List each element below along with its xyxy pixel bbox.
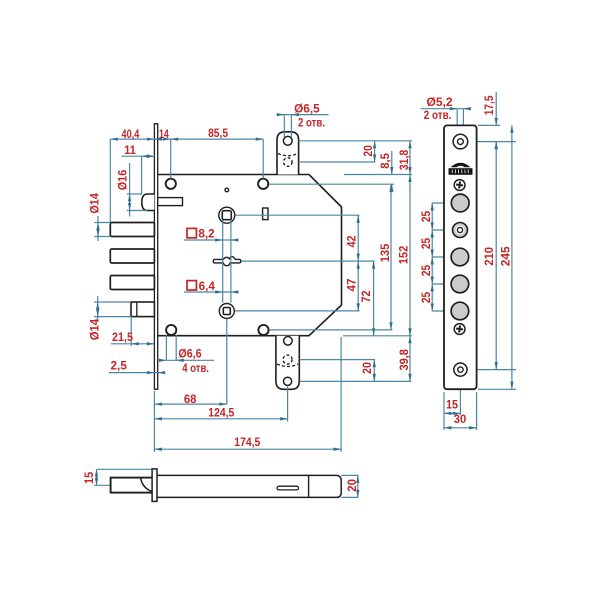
label 2 otv plate [424, 108, 452, 122]
svg-text:20: 20 [361, 145, 375, 157]
label 20 bottom view [345, 479, 359, 492]
label 17,5 [482, 95, 496, 115]
strike plate body [444, 125, 477, 389]
dim O14 bottom [94, 296, 131, 322]
svg-text:135: 135 [378, 244, 392, 263]
dim chain 40,4 / 14 / 85,5 [110, 137, 263, 222]
bottom view: slot in bar [277, 486, 299, 490]
dim O14 top [94, 216, 110, 241]
svg-text:15: 15 [446, 398, 458, 412]
bottom view: faceplate section [152, 469, 157, 502]
svg-text:15: 15 [82, 472, 96, 484]
svg-text:124,5: 124,5 [208, 405, 234, 419]
label 25 d [419, 292, 433, 303]
svg-text:25: 25 [419, 238, 433, 249]
deadbolt 1 [110, 223, 154, 237]
label 15 bottom view [82, 472, 96, 484]
svg-text:14: 14 [159, 127, 169, 141]
dim 124,5 [154, 386, 287, 422]
dim O5,2 [421, 107, 471, 136]
dim 20 bottom view [341, 475, 359, 497]
svg-text:11: 11 [124, 143, 136, 157]
svg-text:Ø6,5: Ø6,5 [294, 101, 320, 115]
label 21,5 [112, 330, 133, 344]
label 47 [345, 278, 359, 291]
plate hole 3 [451, 248, 469, 266]
screw hole bottom-left [166, 325, 176, 335]
pin hole [225, 188, 229, 192]
label 25 b [419, 238, 433, 249]
svg-text:Ø6,6: Ø6,6 [178, 347, 201, 361]
label 39,8 [397, 349, 411, 371]
svg-text:Ø16: Ø16 [115, 170, 129, 191]
label 4 otv [182, 361, 209, 375]
dim 210 [469, 142, 516, 370]
dim square 8,2 [184, 238, 238, 241]
dim 152 [343, 175, 412, 336]
plate top screw hole [453, 134, 468, 149]
svg-text:245: 245 [498, 246, 512, 266]
svg-text:25: 25 [419, 211, 433, 222]
svg-text:85,5: 85,5 [208, 126, 228, 140]
label 85,5 [208, 126, 228, 140]
spindle axis [226, 319, 228, 404]
svg-text:25: 25 [419, 292, 433, 303]
label 30 plate [454, 412, 467, 426]
label 68 [184, 392, 197, 406]
label 8,5 [378, 153, 392, 169]
label 25 c [419, 265, 433, 276]
dim 25 x4 [431, 203, 453, 311]
label 2,5 [111, 358, 127, 372]
svg-text:21,5: 21,5 [112, 330, 133, 344]
spindle square extension lines [223, 220, 231, 303]
svg-text:2,5: 2,5 [111, 358, 127, 372]
svg-text:72: 72 [359, 290, 373, 302]
deadbolt 2 [110, 249, 154, 263]
label O14 bottom [87, 319, 101, 341]
brand logo [449, 163, 473, 175]
label square 8,2 [187, 227, 215, 241]
plate hole 5 [451, 302, 469, 320]
label 25 a [419, 211, 433, 222]
plate hole 1 [451, 194, 469, 212]
svg-text:6,4: 6,4 [199, 279, 215, 293]
dim 8,5 [269, 151, 412, 193]
svg-text:20: 20 [360, 362, 374, 374]
svg-text:Ø14: Ø14 [87, 319, 101, 341]
dim 20 bottom tab [299, 360, 376, 382]
svg-text:8,5: 8,5 [378, 153, 392, 169]
square spindle hole 6.4 [219, 304, 234, 319]
deadbolt 3 [110, 276, 154, 290]
keyhole [213, 257, 241, 266]
label square 6,4 [187, 279, 215, 293]
dim 21,5 [111, 317, 154, 346]
label 11 [124, 143, 136, 157]
label 210 [482, 247, 496, 266]
dim O6,6 leader [159, 335, 214, 362]
label O5,2 [427, 95, 453, 109]
slot [263, 208, 268, 220]
svg-text:40,4: 40,4 [122, 127, 140, 141]
svg-text:42: 42 [345, 235, 359, 247]
svg-text:Ø14: Ø14 [87, 193, 101, 214]
label 31,8 [397, 150, 411, 171]
label 174,5 [234, 435, 260, 449]
label 15 plate [446, 398, 458, 412]
label O14 top [87, 193, 101, 214]
svg-text:68: 68 [184, 392, 197, 406]
label 2 otv top [298, 116, 325, 130]
svg-text:17,5: 17,5 [482, 95, 496, 115]
top mounting tab [277, 132, 299, 175]
bottom mounting tab [276, 336, 299, 390]
dim 42 / 47 [235, 215, 375, 311]
svg-text:2 отв.: 2 отв. [298, 116, 325, 130]
lock body outline [158, 175, 342, 336]
dim 31,8 [408, 141, 411, 175]
label 20 top tab [361, 145, 375, 157]
dim 39,8 [299, 336, 411, 382]
bottom view: latch head [111, 478, 155, 493]
plate top phillips screw [454, 180, 465, 191]
plate bottom screw hole [454, 363, 467, 376]
label O6,6 [178, 347, 201, 361]
svg-text:47: 47 [345, 278, 359, 291]
svg-text:174,5: 174,5 [234, 435, 260, 449]
dim 135 [269, 184, 392, 330]
svg-text:210: 210 [482, 247, 496, 266]
plate hole 2 (cylinder) [453, 223, 468, 238]
dim O16 [127, 163, 148, 217]
svg-text:4 отв.: 4 отв. [182, 361, 209, 375]
label 20 bottom tab [360, 362, 374, 374]
auxiliary bolt [131, 302, 154, 317]
dim 11 [122, 155, 155, 194]
dim 15 plate [444, 377, 477, 430]
svg-text:31,8: 31,8 [397, 150, 411, 171]
dim 68 [154, 402, 226, 405]
latch tail [158, 198, 183, 206]
square spindle hole 8.2 [219, 207, 235, 223]
latch bolt head [142, 194, 155, 211]
bottom view: long bar [157, 475, 341, 497]
dim square 6,4 [184, 290, 238, 293]
dim 30 plate [444, 426, 477, 429]
svg-text:152: 152 [396, 246, 410, 265]
label 72 [359, 290, 373, 302]
label 14 [159, 127, 169, 141]
label 245 [498, 246, 512, 266]
dim 245 [478, 125, 516, 389]
dim 17,5 [469, 92, 516, 150]
svg-text:39,8: 39,8 [397, 349, 411, 371]
dim 15 bottom view [94, 469, 152, 485]
faceplate (edge view) [154, 124, 157, 389]
label 40,4 [122, 127, 140, 141]
svg-text:2 отв.: 2 отв. [424, 108, 452, 122]
plate hole 4 [451, 275, 469, 293]
screw hole top-right [258, 179, 268, 189]
plate bottom phillips screw [454, 324, 465, 335]
svg-text:25: 25 [419, 265, 433, 276]
svg-text:30: 30 [454, 412, 467, 426]
label O16 [115, 170, 129, 191]
screw hole top-left [166, 179, 176, 189]
svg-text:20: 20 [345, 479, 359, 492]
label O6,5 [294, 101, 320, 115]
svg-text:8,2: 8,2 [198, 227, 214, 241]
label 135 [378, 244, 392, 263]
label 124,5 [208, 405, 234, 419]
screw hole bottom-right [258, 325, 268, 335]
dim 20 top tab [299, 141, 412, 162]
label 152 [396, 246, 410, 265]
label 42 [345, 235, 359, 247]
dim 72 [372, 261, 375, 336]
dim 174,5 [154, 337, 341, 452]
dim O6,5 [277, 113, 329, 137]
dim 2,5 [109, 371, 165, 374]
